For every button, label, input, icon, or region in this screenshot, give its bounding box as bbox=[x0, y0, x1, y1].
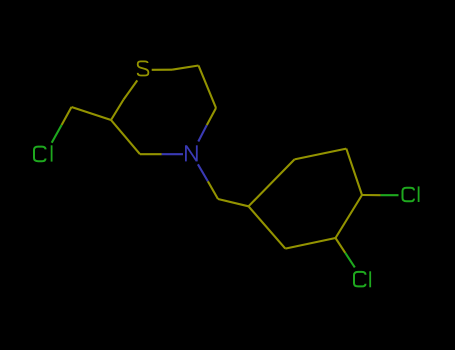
wire S to C5 (carbon half) bbox=[172, 66, 199, 70]
benzene ring edge F-A bbox=[249, 206, 286, 248]
benzene ring edge C-D bbox=[346, 149, 362, 195]
wire C4-N (carbon half) bbox=[207, 108, 216, 125]
atom label S bbox=[138, 61, 149, 75]
wire C2-S (S half) bbox=[124, 80, 138, 99]
wire D-Cl2 (Cl half) bbox=[381, 194, 399, 196]
benzene ring edge B-C bbox=[295, 149, 347, 160]
wire E-Cl3 (Cl half) bbox=[345, 253, 355, 268]
wire C4-N (N half) bbox=[198, 125, 207, 141]
wire E-Cl3 (carbon half) bbox=[336, 238, 346, 253]
wire CH2-Cl1 (Cl half) bbox=[52, 125, 62, 143]
wire N-CH2 benzyl (N half) bbox=[198, 164, 208, 181]
benzene ring edge A-B bbox=[249, 159, 295, 206]
wire N-CH2 benzyl (carbon half) bbox=[208, 181, 218, 199]
wire C2-CH2Cl bond bbox=[72, 107, 112, 120]
wire N-C3 (carbon half) bbox=[140, 153, 162, 155]
atom label Cl1 chloromethyl bbox=[34, 145, 52, 161]
atom label Cl3 meta bbox=[354, 271, 370, 287]
wire S to C5 (S half) bbox=[152, 69, 172, 71]
wire C5-C4 ring bond bbox=[199, 66, 217, 109]
wire D-Cl2 (carbon half) bbox=[362, 194, 381, 196]
atom label N bbox=[186, 145, 197, 161]
wire C3-C2 ring bond bbox=[111, 120, 140, 154]
wire CH2-phenyl ipso bond bbox=[218, 199, 249, 206]
benzene ring edge E-F bbox=[285, 238, 335, 249]
wire N-C3 (N half) bbox=[162, 153, 183, 155]
wire CH2-Cl1 (carbon half) bbox=[62, 107, 72, 125]
atom label Cl2 para bbox=[403, 186, 419, 202]
wire C2-S (carbon half) bbox=[111, 100, 124, 121]
benzene ring edge D-E bbox=[336, 195, 363, 238]
